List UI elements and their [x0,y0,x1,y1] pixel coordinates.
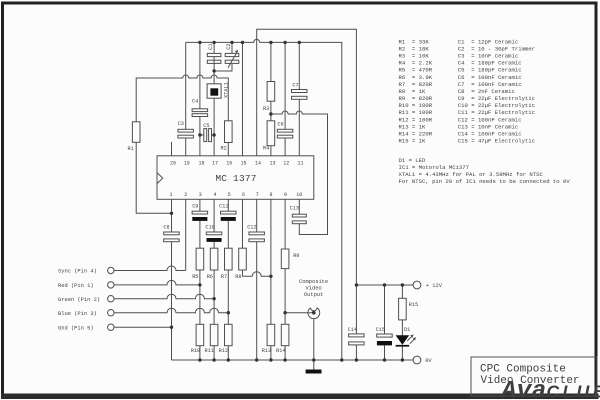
svg-text:Blue (Pin 3): Blue (Pin 3) [58,311,97,317]
terminal 0V [413,356,432,364]
svg-text:C15 = 47µF Electrolytic: C15 = 47µF Electrolytic [458,138,535,145]
wire pin 2 down to sync row [185,199,187,270]
svg-text:C7 = 100nF Ceramic: C7 = 100nF Ceramic [458,81,522,88]
resistor R7 [221,248,232,280]
junction dot R8/pin8 [269,275,272,278]
wire C1 bottom to XTAL top [214,57,232,84]
svg-text:C7: C7 [292,82,298,88]
parts list resistors column [399,38,433,144]
svg-text:14: 14 [255,160,261,166]
junction dots C5 [198,133,216,136]
pin numbers bottom row [169,192,302,198]
capacitor C9 electrolytic [192,204,208,221]
wire R15 stem from +12V row [401,285,403,298]
svg-text:C11: C11 [219,204,228,210]
svg-text:R13 = 1K: R13 = 1K [399,123,426,130]
wire pin 3 to C9 [199,199,201,211]
svg-text:R9: R9 [293,253,299,259]
svg-text:19: 19 [184,160,190,166]
wire pin 5 to C11 [227,199,229,211]
junction dots +12V row [355,283,404,286]
wire R8 bottom to pin 8 line (hop over pin 7 line) [243,270,271,276]
resistor R1 [128,122,141,152]
junction dot R1/pin1 [170,212,173,215]
wire R2 to pin 16 [227,143,229,156]
wire C4 to pin 18 [199,117,201,156]
svg-text:R12 = 100R: R12 = 100R [399,116,433,123]
svg-text:R11: R11 [205,348,214,354]
connector composite output RCA jack [308,308,320,319]
wire R7 to R12 (blue junction) [227,270,229,324]
svg-text:13: 13 [269,160,275,166]
wire R5 to R10 (red junction) [199,270,201,324]
terminal +12V [413,281,443,289]
junction dot gnd/pin1 [170,326,173,329]
junction dots bottom rail [198,358,404,361]
resistor R6 [207,248,218,280]
resistor R8 [235,248,246,280]
svg-text:1: 1 [169,192,172,198]
wire R1 top row to R2 (hops over pin19, pin18, pin17 lines) [136,75,228,122]
svg-text:R12: R12 [219,348,228,354]
wire R13 to rail [270,346,272,360]
wire 0V bottom rail [172,359,414,361]
wire C5 left link [200,134,204,136]
svg-text:16: 16 [226,160,232,166]
terminal Green input [58,296,114,303]
svg-text:R8: R8 [235,274,241,280]
terminal Gnd input [58,324,114,331]
wire C11 to R7 [227,221,229,248]
svg-text:R5: R5 [192,274,198,280]
wire pin 8 down to R13 [270,199,272,324]
junction dot red/pin3 [198,283,201,286]
resistor R15 [399,298,419,320]
capacitor C8 [163,224,179,241]
svg-text:R7: R7 [221,274,227,280]
capacitor C2 trimmer [225,43,239,67]
svg-text:R7 = 820R: R7 = 820R [399,81,433,88]
svg-text:C6: C6 [277,121,283,127]
wire R12 to rail [227,346,229,360]
crystal XTAL1 [207,82,229,98]
notes block D1 IC1 XTAL1 [399,157,571,185]
svg-text:7: 7 [256,192,259,198]
junction dot R9/output [283,311,286,314]
svg-text:C13 = 10nF Ceramic: C13 = 10nF Ceramic [458,123,518,130]
svg-text:4: 4 [213,192,216,198]
svg-text:D1: D1 [404,327,410,333]
svg-text:8: 8 [269,192,272,198]
svg-text:R3: R3 [263,106,269,112]
wire green row [114,294,214,298]
svg-text:9: 9 [284,192,287,198]
svg-text:C10: C10 [205,224,214,230]
svg-text:R4 = 2.2K: R4 = 2.2K [399,60,433,67]
svg-text:18: 18 [198,160,204,166]
wire blue row [114,308,228,313]
svg-text:R6: R6 [207,274,213,280]
resistor R3 [263,82,275,112]
capacitor C13 [290,206,307,224]
resistor R2 [221,121,233,152]
wire R14 to rail [284,346,286,360]
svg-text:R3 = 10K: R3 = 10K [399,53,430,60]
svg-text:IC1 = Motorola MC1377: IC1 = Motorola MC1377 [399,164,470,171]
capacitor C12 [247,224,264,241]
svg-text:2: 2 [184,192,187,198]
svg-text:C4 = 180pF Ceramic: C4 = 180pF Ceramic [458,60,522,67]
junction dot C1/C2 bottoms [212,69,215,72]
svg-text:Sync (Pin 4): Sync (Pin 4) [58,269,97,275]
svg-text:R8 = 1K: R8 = 1K [399,88,426,95]
wire sync row (hop over pin1 line) [114,266,186,271]
svg-text:R15 = 1K: R15 = 1K [399,138,426,145]
svg-text:XTAL1 = 4.43MHz for PAL or 3.5: XTAL1 = 4.43MHz for PAL or 3.58MHz for N… [399,171,544,178]
capacitor C14 [348,327,365,345]
wire R9 to R14 (output junction) [284,269,286,325]
svg-text:3: 3 [199,192,202,198]
svg-text:R10: R10 [191,348,200,354]
wire R6 to R11 (green junction) [213,270,215,324]
capacitor C3 [178,121,194,138]
svg-text:C3: C3 [178,121,184,127]
svg-text:6: 6 [242,192,245,198]
wire C6 to pin 12 [284,138,286,156]
svg-text:C1: C1 [208,43,214,49]
svg-text:+ 12V: + 12V [426,283,443,289]
wire R3/R4 junction right to C13 bottom loop (hops over C6, C7 lines) [271,111,328,235]
resistor R14 [276,324,289,354]
wire pin 4 to C10 [213,199,215,232]
svg-text:C13: C13 [290,206,299,212]
wire R4 to pin 13 [270,146,272,156]
terminal Blue input [58,310,114,317]
capacitor C1 [207,43,221,63]
svg-text:R6 = 3.9K: R6 = 3.9K [399,74,433,81]
wire rail to pin 15 [242,42,244,155]
wire output junction to RCA jack [285,312,313,314]
terminal Sync input [58,267,114,274]
wire RCA jack shield to rail [313,319,315,360]
svg-text:C2 = 10 - 30pF Trimmer: C2 = 10 - 30pF Trimmer [458,46,535,53]
capacitor C11 electrolytic [219,204,236,221]
junction dots top rail [198,41,301,44]
resistor R10 [191,324,204,354]
junction dot R3/R4 [269,112,272,115]
LED D1 [396,327,417,347]
svg-text:R14 = 220R: R14 = 220R [399,130,433,137]
capacitor C10 electrolytic [205,224,221,242]
wire red row [114,280,200,285]
wire rail to R3 top [270,42,272,81]
svg-text:C14 = 100nF Ceramic: C14 = 100nF Ceramic [458,130,522,137]
svg-text:R9 = 820R: R9 = 820R [399,95,433,102]
svg-text:C4: C4 [192,99,198,105]
svg-text:11: 11 [297,160,303,166]
svg-text:C10 = 22µF Electrolytic: C10 = 22µF Electrolytic [458,102,535,109]
wire pin 20 stub [171,142,173,156]
capacitor C4 [192,99,208,117]
svg-text:R1: R1 [128,146,134,152]
svg-text:C6 = 100nF Ceramic: C6 = 100nF Ceramic [458,74,522,81]
svg-text:C11 = 22µF Electrolytic: C11 = 22µF Electrolytic [458,109,535,116]
wire C9 to R5 [199,221,201,248]
svg-text:Video: Video [306,286,322,292]
svg-text:C2: C2 [226,43,232,49]
op-amp IC U1 MC1377 body [157,156,314,200]
svg-text:C5 = 180pF Ceramic: C5 = 180pF Ceramic [458,67,522,74]
svg-text:C1 = 12pF Ceramic: C1 = 12pF Ceramic [458,38,518,45]
wire pin 1 to C8 (R1 junction at 213.3) [171,199,173,232]
wire C3 to pin 19 [185,138,187,156]
svg-text:C12: C12 [247,224,256,230]
resistor R12 [219,324,232,354]
svg-text:C14: C14 [348,327,357,333]
svg-text:R1 = 33K: R1 = 33K [399,38,430,45]
wire C5 right link [212,134,215,136]
junction dot blue/pin5 [227,311,230,314]
resistor R11 [205,324,218,354]
wire rail to C6 top [284,42,286,129]
pin numbers top row [170,160,304,166]
svg-text:C8: C8 [163,224,169,230]
svg-text:Green (Pin 2): Green (Pin 2) [58,297,100,303]
wire rail to C7 top [298,42,300,89]
svg-text:R15: R15 [409,302,418,308]
wire +12V top loop: pin 14 up over rail, right, down to C14 [257,29,357,334]
svg-text:R4: R4 [263,145,269,151]
svg-text:R14: R14 [276,348,285,354]
svg-text:R11 = 100R: R11 = 100R [399,109,433,116]
svg-text:D1 = LED: D1 = LED [399,157,426,164]
wire R10 to rail [199,346,201,360]
wire pin 7 to C12 [256,199,258,232]
wire C12 down to rail [256,242,258,360]
svg-text:R2: R2 [221,145,227,151]
svg-text:C9: C9 [192,204,198,210]
wire C15 stem from +12V row [384,285,386,334]
wire pin 9 to R9 [284,199,286,249]
wire rail to C2 top [231,42,233,53]
svg-text:17: 17 [212,160,218,166]
svg-text:15: 15 [240,160,246,166]
wire gnd row [114,326,172,328]
capacitor C6 [277,121,293,138]
title box [471,357,597,396]
svg-text:Red (Pin 1): Red (Pin 1) [58,283,94,289]
capacitor C15 electrolytic [376,327,393,345]
wire pin 10 to C13 [298,199,300,214]
svg-text:10: 10 [296,192,302,198]
svg-text:C15: C15 [376,327,385,333]
wire R15 to LED [401,320,403,336]
svg-text:R5 = 470R: R5 = 470R [399,67,433,74]
terminal Red input [58,282,114,289]
parts list capacitors column [458,38,535,144]
wire R1 bottom to pin 1 line [136,142,171,213]
resistor R5 [192,248,204,280]
wire C7 to pin 11 [298,99,300,156]
wire C15 to rail [384,345,386,360]
svg-text:C8 = 2nF Ceramic: C8 = 2nF Ceramic [458,88,515,95]
svg-text:C3 = 10nF Ceramic: C3 = 10nF Ceramic [458,53,518,60]
svg-text:0V: 0V [425,358,432,364]
svg-text:12: 12 [283,160,289,166]
wire rail to C1 top [213,42,215,53]
svg-text:C5: C5 [203,123,209,129]
resistor R13 [262,324,275,354]
svg-text:R2 = 18K: R2 = 18K [399,46,430,53]
resistor R9 [281,249,299,269]
svg-text:R10 = 100R: R10 = 100R [399,102,433,109]
svg-text:Gnd (Pin 5): Gnd (Pin 5) [58,325,94,331]
svg-text:5: 5 [228,192,231,198]
svg-text:R13: R13 [262,348,271,354]
wire pin 6 to R8 [242,199,244,248]
junction dot green/pin4 [212,297,215,300]
wire rail to C4 top [199,42,201,108]
wire XTAL1 to pin 17 [213,98,215,156]
svg-text:MC 1377: MC 1377 [215,173,256,184]
wire C8 down to bottom rail corner [171,242,173,360]
wire R3 bottom to R4 top [270,101,272,121]
label Composite Video Output [299,279,328,298]
svg-text:20: 20 [170,160,176,166]
svg-text:Composite: Composite [299,279,328,285]
wire ground rail top (0V net, down right side to bottom rail) [186,39,342,360]
wire rail-end branch to C3 top [185,42,187,129]
wire C14 to rail [355,345,357,360]
capacitor C7 [292,82,308,99]
resistor R4 [263,121,275,152]
ground symbol [306,360,322,374]
svg-text:For NTSC, pin 20 of IC1 needs: For NTSC, pin 20 of IC1 needs to be conn… [399,178,571,185]
svg-text:C12 = 100nF Ceramic: C12 = 100nF Ceramic [458,116,522,123]
svg-text:C9 = 22µF Electrolytic: C9 = 22µF Electrolytic [458,95,535,102]
svg-text:CPC Composite: CPC Composite [480,363,566,375]
svg-text:Output: Output [304,292,323,298]
wire LED to rail [401,347,403,361]
wire R11 to rail [213,346,215,360]
wire +12V row [356,284,413,286]
capacitor C5 [203,123,211,142]
wire C10 to R6 [213,242,215,248]
